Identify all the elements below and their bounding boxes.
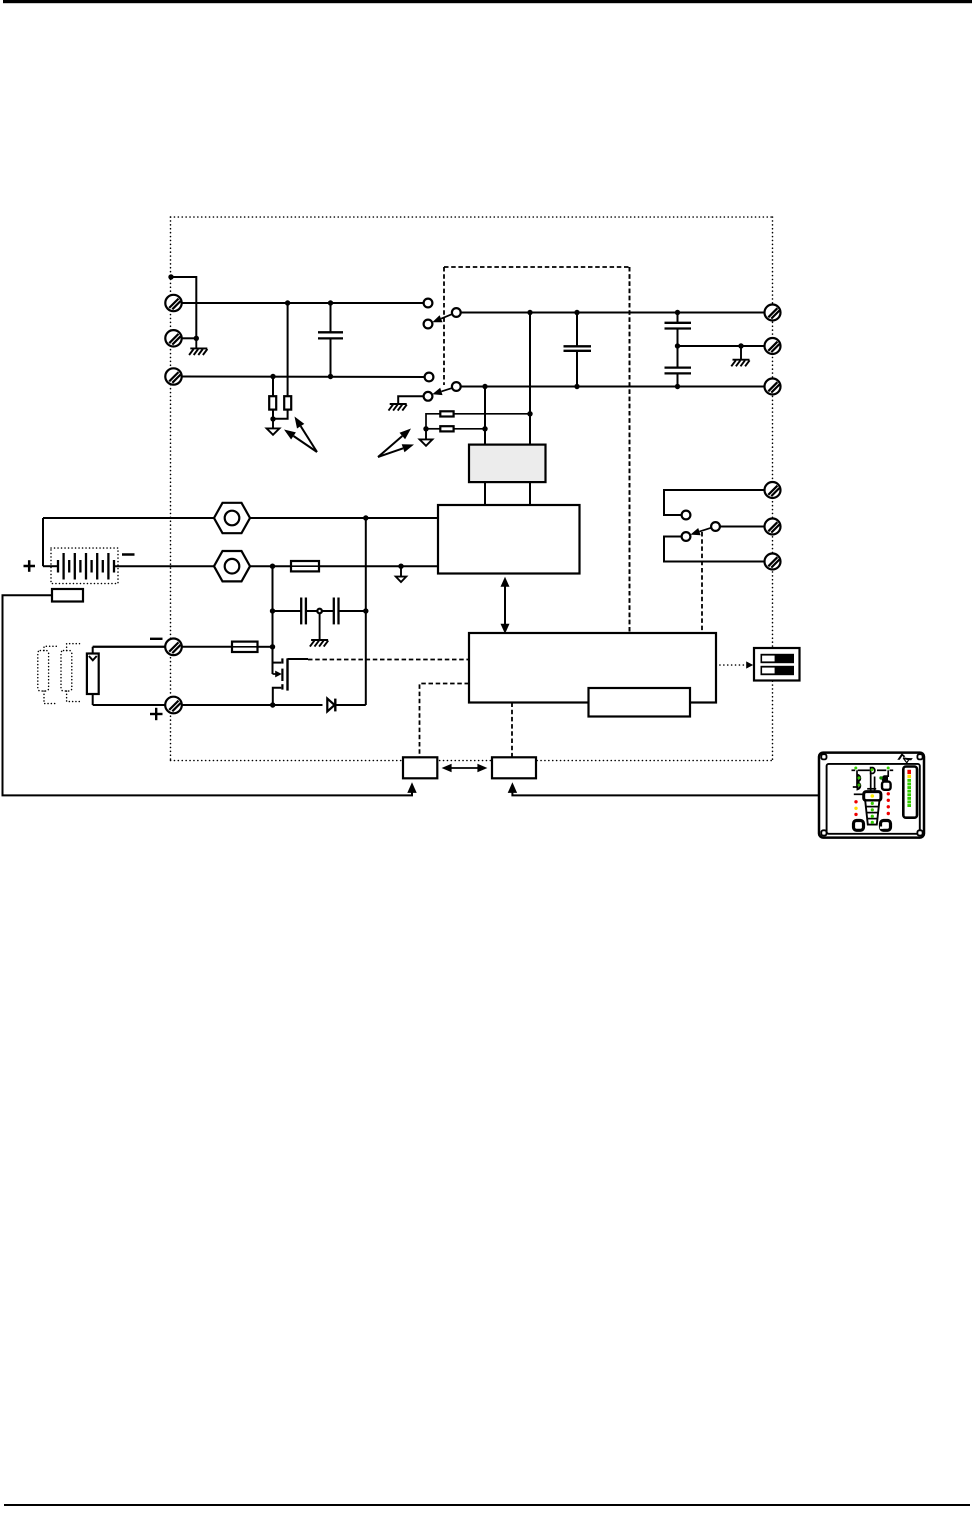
wire: T1 to stator block leg 1 [484, 482, 486, 505]
capacitor C2 (in control box) [564, 313, 592, 387]
ground: chassis at SW2 [389, 404, 407, 411]
resistor R2 [284, 396, 291, 409]
node: frame ground junction on enclosure [168, 274, 173, 279]
panel right lamp column [887, 792, 890, 815]
wire: DC minus row [93, 646, 166, 648]
panel choke tower [864, 792, 881, 825]
terminal: DC charge minus (hatched) [165, 639, 182, 656]
wire: FET drain dashed to inverter [308, 659, 469, 661]
terminal: DC charge plus (hatched) [165, 697, 182, 714]
wire: pivot to DC terminal [720, 526, 765, 528]
wire: V2 vertical to transformer [529, 313, 531, 445]
wire: battery positive riser [42, 518, 44, 566]
wire: dashed inverter to combination box 1 [420, 684, 470, 758]
node: junction caps row right [363, 608, 368, 613]
node: junction row A / V2 [527, 411, 532, 416]
switch SW2 contact a (line side) [425, 373, 434, 382]
terminal: AC receptacle hot (hatched) [765, 305, 781, 321]
node: C2 bottom junction [574, 384, 579, 389]
ground: chassis below terminal 2 [189, 338, 207, 355]
wire: dashed inverter to combination box 2 [511, 703, 513, 758]
node: junction bottom wire / capacitor C1 [328, 374, 333, 379]
wire: drain rail vertical [365, 518, 367, 705]
ghost connector A (dotted) [38, 646, 58, 703]
bidirectional arrow stator/inverter [501, 577, 510, 634]
switch SW3 pivot contact [711, 522, 720, 531]
wire: fuse F1 to remote box (left/bottom run) [3, 595, 413, 795]
wire: dashed control box to inverter [629, 267, 631, 633]
switch SW1 contact b (open position) [424, 320, 433, 329]
noise suppressor L2 (hex) bottom [214, 551, 250, 581]
wire: sense row B [426, 428, 440, 430]
top rule bar [3, 0, 972, 3]
node: resistor common junction [270, 416, 275, 421]
sub module U3 (overlapping) [589, 688, 691, 717]
node: junction battery row / hex [270, 564, 275, 569]
node: junction midpoint ground [738, 343, 743, 348]
node: C2 top junction [574, 310, 579, 315]
wire: sense row A [426, 414, 440, 429]
capacitor C3 (line filter upper) [665, 313, 692, 347]
terminal: output terminal 1 (hatched) [165, 295, 181, 311]
wire: V1 vertical to transformer [484, 387, 486, 445]
wire: inverter input bottom [461, 386, 765, 388]
ground: chassis at cap center tap [310, 613, 328, 646]
switch SW1 arm [432, 314, 453, 323]
panel bottom buttons [854, 821, 891, 831]
node: junction V2 top [527, 310, 532, 315]
node: junction V1 top [482, 384, 487, 389]
wire: filter midpoint to AC neutral terminal [678, 345, 765, 347]
node: junction top row / drain rail [363, 515, 368, 520]
label: plus at DC terminal [150, 708, 163, 720]
capacitor C4 (line filter lower) [665, 346, 692, 387]
switch SW1 pivot contact [452, 308, 461, 317]
bidirectional arrow between boxes [442, 764, 488, 773]
terminal: AC receptacle ground (hatched) [765, 338, 781, 354]
arrow into combination box 1 [407, 782, 416, 793]
generator stator / engine block U1 [438, 505, 580, 574]
panel logo wing [897, 753, 913, 760]
wire: DC breaker loop top [664, 490, 765, 515]
node: junction top wire / capacitor C1 [328, 300, 333, 305]
wire: T1 to stator block leg 2 [529, 482, 531, 505]
panel corner screws [821, 754, 922, 835]
node: junction top wire / resistor R2 lead [285, 300, 290, 305]
callout arrows to R1/R2 [284, 417, 317, 453]
node: sense common junction [423, 426, 428, 431]
panel left branch symbols [853, 770, 861, 789]
panel pilot lamp D [871, 768, 875, 774]
generator enclosure dotted border [171, 217, 773, 761]
switch SW2 contact b (ground side) [424, 392, 433, 401]
resistor R1 [269, 396, 276, 409]
panel LED bar meter [903, 767, 917, 818]
node: C4 bottom junction [675, 384, 680, 389]
panel center stem [867, 774, 876, 792]
fuse F1 (main fuse under battery) [52, 589, 83, 602]
wire: main output top (generator side) [182, 302, 424, 304]
switch SW2 pivot contact [452, 382, 461, 391]
wire: dotted inverter to DIP switch with arrow [716, 661, 753, 668]
combination box 1 [403, 757, 437, 778]
wire: R2 bottom lead [273, 410, 288, 419]
control panel assembly [819, 753, 924, 838]
capacitor C5 (left of center tap) [273, 598, 318, 625]
panel left lamp column [854, 794, 864, 816]
panel right branch symbols [879, 770, 890, 790]
wire: DC breaker loop bottom [664, 537, 765, 562]
ghost connector B (dotted) [61, 644, 80, 702]
switch SW2 arm [432, 388, 453, 395]
wire: battery row fuse to regulator [319, 565, 438, 567]
noise suppressor L1 (hex) top [214, 503, 250, 533]
wire: R1 bottom lead [272, 410, 274, 419]
wire: control panel to combination box 2 [512, 793, 819, 796]
panel green LEDs top [854, 767, 857, 770]
wire: hex junction down rail [272, 566, 274, 646]
node: C3/C4 midpoint junction [675, 343, 680, 348]
node: gate node junction [270, 644, 275, 649]
wire: R1 top lead [272, 377, 274, 397]
ground: arrow ground at sense common [420, 429, 433, 446]
node: junction DC plus / FET source [270, 702, 275, 707]
switch SW3 contact a [682, 511, 691, 520]
node: junction bottom wire / resistor R1 lead [270, 374, 275, 379]
wire: R2 top lead [287, 303, 289, 396]
wire: battery negative row [115, 565, 215, 567]
wire: SW2 ground lead [398, 396, 423, 404]
wire: DC plus row [93, 704, 166, 706]
wire: frame ground link top [171, 277, 196, 338]
resistor R4 (sense) [440, 426, 453, 431]
ground: arrow ground under resistors [267, 419, 280, 435]
arrow into combination box 2 [508, 782, 517, 793]
terminal: DC out 2 (hatched) [765, 519, 781, 535]
node: C3 top junction [675, 310, 680, 315]
wire: inverter input top [461, 312, 765, 314]
capacitor C6 (right of center tap) [322, 598, 366, 625]
wire: fuse F3 to FET gate node [258, 646, 273, 648]
ground: chassis at filter midpoint [731, 346, 749, 366]
wire: main output bottom (generator side) [182, 376, 425, 379]
transformer T1 (grey block) [469, 445, 546, 483]
label: minus at DC terminal [150, 638, 163, 640]
diode D1 [327, 699, 366, 712]
resistor R3 (sense) [440, 411, 453, 416]
battery BT1 [43, 548, 118, 584]
node: cap center tap (open) [317, 609, 322, 614]
terminal: DC out 3 (hatched) [765, 554, 781, 570]
panel mimic top line with indicator [852, 769, 894, 771]
thermal sensor RT1 [87, 647, 165, 705]
node: junction battery row ground tap [398, 564, 403, 569]
inverter unit U2 [469, 633, 716, 703]
node: junction row B / V1 [482, 426, 487, 431]
label: battery minus [122, 553, 135, 556]
fuse F3 (DC line) [232, 642, 258, 652]
combination box 2 [492, 757, 536, 778]
terminal: DC out 1 (hatched) [765, 482, 781, 498]
ground: arrow ground on battery row [396, 566, 406, 582]
label: battery plus [24, 560, 36, 572]
terminal: output terminal 3 (hatched) [165, 368, 181, 384]
wire: dashed DC switch to inverter [701, 532, 703, 633]
node: junction caps row left [270, 608, 275, 613]
bottom rule [4, 1504, 970, 1506]
switch SW3 arm [690, 528, 711, 536]
switch SW3 contact b [682, 532, 691, 541]
wire: terminal 2 stub [182, 337, 197, 339]
switch SW1 contact a (fixed, line side) [424, 299, 433, 308]
node: ground stub junction [194, 336, 199, 341]
control box dashed border [444, 267, 630, 633]
fuse F2 (charge line) [291, 561, 319, 571]
terminal: output terminal 2 (hatched) [165, 330, 181, 346]
DIP switch S1 [754, 648, 800, 681]
callout arrows to sensing resistors [378, 429, 414, 458]
wire: charge coil top row [43, 517, 214, 519]
terminal: AC receptacle neutral (hatched) [765, 379, 781, 395]
transistor Q1 (FET) [273, 647, 309, 705]
capacitor C1 across output [318, 303, 343, 377]
